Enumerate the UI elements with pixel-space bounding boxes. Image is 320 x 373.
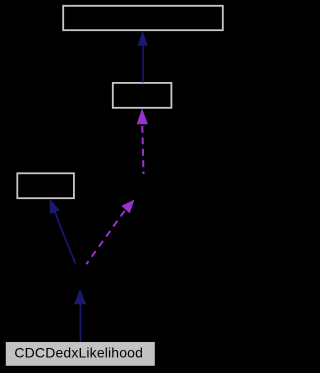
svg-text:CDCDedxLikelihood: CDCDedxLikelihood: [14, 345, 143, 361]
